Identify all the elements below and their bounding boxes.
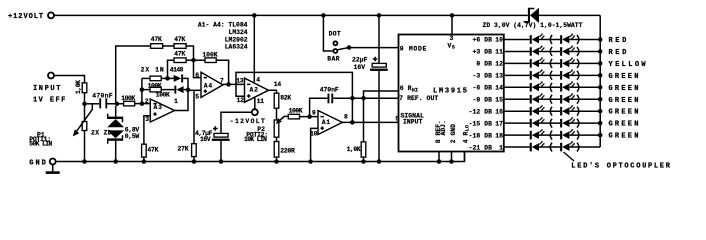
wire to LED supply rail xyxy=(569,86,600,88)
node A1 inverting input xyxy=(307,114,312,119)
node rail to A2 V+ xyxy=(252,13,256,18)
wire +12V rail after zener to LED rail xyxy=(539,14,600,16)
resistor 220R xyxy=(274,142,279,158)
svg-text:4148: 4148 xyxy=(170,66,184,73)
node LED rail row xyxy=(598,49,603,54)
svg-text:15: 15 xyxy=(495,96,503,103)
switch S1 DOT contact xyxy=(333,41,337,45)
svg-text:LM3915: LM3915 xyxy=(433,87,469,95)
IC LM3915 xyxy=(399,35,504,152)
node rail to 22uF xyxy=(377,13,382,18)
node feedback resistors xyxy=(140,87,145,92)
wire 22uF to ground rail xyxy=(378,71,380,162)
wire feedback node vertical xyxy=(141,78,143,103)
svg-text:S: S xyxy=(452,44,455,50)
resistor 100K feedback 1 xyxy=(142,77,150,79)
svg-text:+3 DB: +3 DB xyxy=(473,49,493,56)
svg-text:-18 DB: -18 DB xyxy=(469,132,492,139)
wire A2 pin12 feedback xyxy=(236,72,352,98)
LED D1b optocoupler xyxy=(560,141,575,151)
wire LM3915 pin 18 to LED row xyxy=(504,134,530,136)
node LED rail row xyxy=(598,97,603,102)
wire to LED supply rail xyxy=(569,39,600,41)
capacitor 470nF A1 feedback xyxy=(328,94,330,104)
LED D1a (-21 DB) xyxy=(530,141,545,151)
LED D18a (-18 DB) xyxy=(530,129,545,139)
svg-text:1: 1 xyxy=(499,144,503,151)
svg-text:2X ZD: 2X ZD xyxy=(91,129,112,136)
LED D12a (0 DB) xyxy=(530,57,545,67)
bracket ( xyxy=(550,83,552,92)
svg-text:100K: 100K xyxy=(289,108,303,115)
node LED rail row xyxy=(598,73,603,78)
node 47K ground xyxy=(142,159,147,164)
wire LM3915 pin 10 to LED row xyxy=(504,39,530,41)
node LED rail row xyxy=(598,133,603,138)
svg-text:LM324: LM324 xyxy=(229,29,248,36)
svg-text:A1- A4: TL084: A1- A4: TL084 xyxy=(198,21,248,28)
op-amp A1 xyxy=(318,111,342,135)
svg-text:18: 18 xyxy=(495,132,503,139)
svg-text:27K: 27K xyxy=(178,146,189,153)
wire through optocoupler bracket xyxy=(539,122,560,124)
wire A1 pin10 to ground xyxy=(311,128,318,161)
svg-text:3: 3 xyxy=(450,35,454,42)
svg-text:82K: 82K xyxy=(280,94,291,101)
wire LED anode rail xyxy=(599,15,601,147)
node rail to LM3915 Vs xyxy=(450,13,455,18)
svg-text:ADJ.: ADJ. xyxy=(440,120,447,135)
capacitor 470nF input xyxy=(85,103,100,105)
svg-text:A2: A2 xyxy=(250,86,259,93)
wire node down to A1 output xyxy=(351,98,353,122)
wire through optocoupler bracket xyxy=(539,146,560,148)
svg-text:A4: A4 xyxy=(204,82,213,89)
node A4 inverting input xyxy=(191,58,196,63)
svg-text:1V EFF: 1V EFF xyxy=(33,97,67,105)
svg-text:47K: 47K xyxy=(174,51,185,58)
svg-text:RED: RED xyxy=(609,37,629,45)
LED D14b optocoupler xyxy=(560,81,575,91)
node 220R ground xyxy=(274,159,279,164)
bracket ( xyxy=(550,107,552,116)
wire to LED supply rail xyxy=(569,74,600,76)
diode 1N4148 a xyxy=(174,75,182,82)
bracket ) xyxy=(577,83,579,92)
LED D10b optocoupler xyxy=(560,34,575,44)
node rectifier output xyxy=(186,88,191,93)
wire through optocoupler bracket xyxy=(539,39,560,41)
svg-text:11: 11 xyxy=(495,49,503,56)
bracket ) xyxy=(577,47,579,56)
wire REF.ADJ pin to ground xyxy=(438,152,440,162)
wire through optocoupler bracket xyxy=(539,98,560,100)
svg-text:A3: A3 xyxy=(154,104,163,111)
svg-text:GND: GND xyxy=(29,160,48,168)
bracket ( xyxy=(550,35,552,44)
wire switch to MODE pin 9 xyxy=(349,47,399,49)
wire LM3915 pin 17 to LED row xyxy=(504,122,530,124)
bracket ( xyxy=(550,119,552,128)
svg-text:14: 14 xyxy=(495,85,503,92)
bracket ( xyxy=(550,47,552,56)
node 4,7uF ground xyxy=(219,159,224,164)
svg-text:47K: 47K xyxy=(151,36,162,43)
+12V supply terminal xyxy=(48,12,54,18)
wire 470nF to REF line xyxy=(333,97,398,99)
potentiometer P2 10K LIN xyxy=(274,120,279,137)
wire to diode node xyxy=(161,77,174,79)
resistor 1,0K input (vertical) xyxy=(82,83,87,93)
svg-text:12: 12 xyxy=(495,61,503,68)
wire R1,0K down through node to pot xyxy=(84,93,86,122)
svg-text:2: 2 xyxy=(145,98,149,105)
resistor 100K input to A3 xyxy=(124,101,135,106)
svg-text:-3 DB: -3 DB xyxy=(473,73,493,80)
node LED rail row xyxy=(598,121,603,126)
node A input node xyxy=(115,102,119,106)
bracket ) xyxy=(577,35,579,44)
wire LM3915 pin 15 to LED row xyxy=(504,98,530,100)
wire through optocoupler bracket xyxy=(539,86,560,88)
resistor 82K xyxy=(274,93,279,108)
resistor 47K to ground xyxy=(142,144,147,157)
wire to LED supply rail xyxy=(569,110,600,112)
LED D13b optocoupler xyxy=(560,69,575,79)
svg-text:1: 1 xyxy=(174,98,178,105)
svg-text:1,0K: 1,0K xyxy=(347,146,361,153)
bracket ) xyxy=(577,59,579,68)
op-amp A2 xyxy=(245,78,269,102)
svg-text:INPUT: INPUT xyxy=(403,118,423,125)
svg-text:17: 17 xyxy=(495,120,503,127)
resistor 47K series b xyxy=(174,44,186,49)
wire LM3915 pin 12 to LED row xyxy=(504,62,530,64)
node LED rail row xyxy=(598,37,603,42)
node 27K ground xyxy=(192,159,197,164)
LED D11b optocoupler xyxy=(560,45,575,55)
svg-text:GREEN: GREEN xyxy=(609,97,641,105)
svg-text:5: 5 xyxy=(395,115,399,122)
wire diode1 to rectifier node xyxy=(183,78,188,89)
svg-text:16: 16 xyxy=(495,108,503,115)
capacitor 4,7uF 16V xyxy=(214,133,228,137)
bracket ( xyxy=(550,71,552,80)
svg-text:100K: 100K xyxy=(156,92,170,99)
wire ground rail xyxy=(55,152,464,162)
svg-text:100K: 100K xyxy=(202,51,217,58)
svg-text:4: 4 xyxy=(256,77,260,84)
LED D14a (-6 DB) xyxy=(530,81,545,91)
wire +12V rail xyxy=(54,14,528,16)
wire LM3915 pin 11 to LED row xyxy=(504,50,530,52)
svg-text:13: 13 xyxy=(236,77,244,84)
potentiometer P1 50K LIN xyxy=(82,122,87,131)
svg-text:DOT: DOT xyxy=(329,30,341,37)
bracket ( xyxy=(550,131,552,140)
svg-text:100K: 100K xyxy=(121,95,135,102)
svg-text:470nF: 470nF xyxy=(320,86,339,93)
resistor 100K feedback 2 xyxy=(150,87,161,92)
op-amp A3 xyxy=(150,99,174,122)
wire A4 output xyxy=(223,83,245,85)
node LED rail row xyxy=(598,109,603,114)
wire through optocoupler bracket xyxy=(539,62,560,64)
svg-text:YELLOW: YELLOW xyxy=(609,61,648,69)
wire through optocoupler bracket xyxy=(539,50,560,52)
resistor 47K series a xyxy=(151,44,163,49)
bracket ( xyxy=(550,59,552,68)
wire node up to 470nF xyxy=(310,98,328,116)
bracket ( xyxy=(550,95,552,104)
svg-text:11: 11 xyxy=(257,98,265,105)
wire LM3915 pin 1 to LED row xyxy=(504,146,530,148)
P2 wiper arrow xyxy=(279,116,288,121)
wire rail to BAR contact xyxy=(323,15,332,51)
svg-text:0 DB: 0 DB xyxy=(476,61,492,68)
bracket ) xyxy=(577,131,579,140)
node diode1 anode / 47K xyxy=(165,76,170,81)
bracket ) xyxy=(577,71,579,80)
wire cap right to node A xyxy=(107,103,123,105)
GND terminal xyxy=(50,159,56,165)
LED D16b optocoupler xyxy=(560,105,575,115)
svg-text:+12VOLT: +12VOLT xyxy=(8,13,44,21)
LED D18b optocoupler xyxy=(560,129,575,139)
svg-text:1,0K: 1,0K xyxy=(75,80,82,94)
LED D10a (+6 DB) xyxy=(530,34,545,44)
LED D15b optocoupler xyxy=(560,93,575,103)
svg-text:50K LIN: 50K LIN xyxy=(29,141,52,148)
svg-text:13: 13 xyxy=(495,73,503,80)
op-amp A4 xyxy=(201,72,223,97)
svg-text:GREEN: GREEN xyxy=(609,133,641,141)
wire LM3915 pin 16 to LED row xyxy=(504,110,530,112)
svg-text:6: 6 xyxy=(195,72,199,79)
svg-text:8: 8 xyxy=(344,114,348,121)
wire Vs pin 3 xyxy=(451,15,453,34)
svg-text:HI: HI xyxy=(412,87,418,93)
bracket ( xyxy=(550,143,552,152)
node REF to 1,0K xyxy=(361,96,366,101)
node rail to DOT/BAR switch xyxy=(321,13,326,18)
LED D17a (-15 DB) xyxy=(530,117,545,127)
svg-text:22µF: 22µF xyxy=(352,57,368,64)
LED D15a (-9 DB) xyxy=(530,93,545,103)
wire 100K to A3 pin2 xyxy=(135,103,151,105)
LED D13a (-3 DB) xyxy=(530,69,545,79)
svg-text:LA6324: LA6324 xyxy=(225,44,248,51)
wire P2 to 220R xyxy=(276,137,278,141)
capacitor 22uF 16V xyxy=(372,63,386,67)
wire node down to A3 output xyxy=(175,90,189,111)
ground symbol xyxy=(52,164,54,171)
switch lever xyxy=(337,48,349,50)
svg-text:7: 7 xyxy=(220,78,224,85)
svg-text:GREEN: GREEN xyxy=(609,109,641,117)
wire R_LO pin to ground rail end xyxy=(464,152,466,162)
svg-text:16V: 16V xyxy=(354,64,366,71)
wire LM3915 pin 14 to LED row xyxy=(504,86,530,88)
LED D16a (-12 DB) xyxy=(530,105,545,115)
P1 wiper arrow xyxy=(77,104,93,131)
svg-text:2X 1N: 2X 1N xyxy=(141,66,165,73)
wire through optocoupler bracket xyxy=(539,134,560,136)
svg-text:10K LIN: 10K LIN xyxy=(244,136,267,143)
wire 1,0K to ground xyxy=(363,98,365,142)
wire LM3915 pin 13 to LED row xyxy=(504,74,530,76)
wire -12V to 4,7uF xyxy=(221,112,252,133)
svg-text:GREEN: GREEN xyxy=(609,85,641,93)
resistor 27K A4 bias xyxy=(193,90,195,143)
wire node down to A4 pin6 xyxy=(194,60,202,77)
node A1 output xyxy=(350,120,355,125)
bracket ) xyxy=(577,107,579,116)
svg-text:9: 9 xyxy=(312,109,316,116)
wire to LED supply rail xyxy=(569,122,600,124)
node LED rail row xyxy=(598,85,603,90)
zener pair 2X ZD 6,8V xyxy=(115,106,117,117)
node A3 inverting input xyxy=(140,101,145,106)
svg-text:-21 DB: -21 DB xyxy=(469,144,492,151)
wire 47K b to A4 input node xyxy=(186,46,193,60)
svg-text:10: 10 xyxy=(495,37,503,44)
svg-text:47K: 47K xyxy=(147,146,158,153)
wire through optocoupler bracket xyxy=(539,74,560,76)
svg-text:LM2902: LM2902 xyxy=(225,37,248,44)
resistor 100K A4 feedback xyxy=(194,59,206,61)
node A4 output / feedback xyxy=(226,82,231,87)
bracket ) xyxy=(577,119,579,128)
bracket ) xyxy=(577,143,579,152)
svg-text:-12VOLT: -12VOLT xyxy=(230,118,266,125)
wire to LED supply rail xyxy=(569,98,600,100)
svg-text:3: 3 xyxy=(145,116,149,123)
wire to LED supply rail xyxy=(569,134,600,136)
svg-text:47K: 47K xyxy=(174,36,185,43)
node 22uF ground xyxy=(377,159,382,164)
svg-text:BAR: BAR xyxy=(327,56,339,63)
svg-text:0,5W: 0,5W xyxy=(125,133,140,140)
zener diode ZD power xyxy=(528,8,530,22)
svg-text:A1: A1 xyxy=(322,119,331,126)
svg-text:220R: 220R xyxy=(280,147,295,154)
INPUT terminal xyxy=(48,73,54,79)
wire A3 pin3 to 47K xyxy=(144,116,150,144)
node LED rail row xyxy=(598,61,603,66)
resistor 1,0K REF xyxy=(361,142,366,157)
resistor 100K P2 wiper to A1 xyxy=(288,114,299,119)
terminal -12V xyxy=(252,109,258,115)
wire R_HI jog xyxy=(364,91,399,98)
wire A1 output to LM3915 signal input xyxy=(342,121,398,123)
LED D11a (+3 DB) xyxy=(530,45,545,55)
wire rail to 22uF xyxy=(378,15,380,63)
LED D12b optocoupler xyxy=(560,57,575,67)
svg-text:9 MODE: 9 MODE xyxy=(400,46,427,53)
wire between 47K a/b xyxy=(163,45,174,47)
wire through optocoupler bracket xyxy=(539,110,560,112)
LED D17b optocoupler xyxy=(560,117,575,127)
wire A2 output to 82K xyxy=(269,90,277,93)
wire GND pin to ground xyxy=(451,152,453,162)
switch S1 BAR contact xyxy=(333,49,337,53)
svg-text:+6 DB: +6 DB xyxy=(473,37,493,44)
svg-text:RED: RED xyxy=(609,49,629,57)
node input divider xyxy=(82,102,87,107)
wire input to R 1,0K xyxy=(54,76,85,83)
wire A2 pin4 V+ to rail xyxy=(253,15,255,82)
wire to LED supply rail xyxy=(569,50,600,52)
svg-text:GREEN: GREEN xyxy=(609,121,641,129)
node P1 ground xyxy=(82,159,87,164)
node REF / A1 output xyxy=(350,96,355,101)
node zener ground xyxy=(113,159,118,164)
leader line optocoupler xyxy=(564,152,575,161)
svg-text:12: 12 xyxy=(237,97,245,104)
svg-text:LED'S OPTOCOUPLER: LED'S OPTOCOUPLER xyxy=(571,162,671,170)
bracket ) xyxy=(577,95,579,104)
svg-text:ZD 3,0V (4,7V) 1,0-1,5WATT: ZD 3,0V (4,7V) 1,0-1,5WATT xyxy=(483,22,583,29)
svg-text:2 GND: 2 GND xyxy=(450,124,457,143)
wire node A up to 47K series xyxy=(116,46,151,104)
wire to LED supply rail xyxy=(569,146,600,148)
wire A2 pin11 V- to -12V terminal xyxy=(254,97,256,110)
wire node to A4 +input xyxy=(188,89,201,91)
wire 82K to P2 xyxy=(276,108,278,120)
svg-text:-9 DB: -9 DB xyxy=(473,96,493,103)
svg-text:16V: 16V xyxy=(200,136,211,143)
svg-text:6 R: 6 R xyxy=(400,85,412,92)
wire P1 to ground xyxy=(84,131,86,162)
node A1 pin10 ground xyxy=(308,159,313,164)
svg-text:-6 DB: -6 DB xyxy=(473,85,493,92)
svg-text:-12 DB: -12 DB xyxy=(469,108,492,115)
resistor 47K from diode node xyxy=(168,60,175,78)
svg-text:GREEN: GREEN xyxy=(609,73,641,81)
svg-text:14: 14 xyxy=(274,81,282,88)
svg-text:5: 5 xyxy=(195,93,199,100)
diode 1N4148 b xyxy=(174,86,176,94)
svg-text:INPUT: INPUT xyxy=(33,85,62,93)
node 1,0K ground xyxy=(361,159,366,164)
svg-text:7 REF. OUT: 7 REF. OUT xyxy=(399,95,438,102)
svg-text:-15 DB: -15 DB xyxy=(469,120,492,127)
wire to LED supply rail xyxy=(569,62,600,64)
switch common node xyxy=(347,45,352,50)
svg-text:470nF: 470nF xyxy=(92,93,113,100)
